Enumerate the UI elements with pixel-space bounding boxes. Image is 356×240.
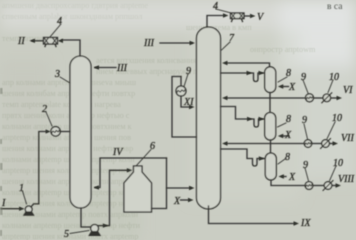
- wire: stripper S1 vapor return to column 7: [226, 63, 270, 67]
- svg-text:шения стема в кмп: шения стема в кмп: [186, 23, 252, 32]
- svg-text:8: 8: [285, 152, 290, 163]
- svg-text:9: 9: [301, 72, 306, 83]
- leader 5: [70, 231, 89, 234]
- scan-edge smudges: [0, 88, 3, 236]
- stripper 8 (S2): [265, 113, 276, 141]
- arrow: S3 draw flow: [259, 156, 265, 160]
- leader 8 (S1): [278, 77, 287, 82]
- wire: transfer line into column 7: [167, 187, 192, 189]
- wire: pump 5 to furnace 6 inlet: [98, 170, 128, 225]
- wire: column 7 bottom to stream IX: [209, 206, 296, 224]
- svg-text:10: 10: [333, 158, 343, 169]
- furnace 6: [124, 166, 152, 212]
- wire: stripper S2 draw from column 7 with seal: [221, 107, 265, 128]
- wire: S3 vapor return riser: [270, 144, 272, 153]
- arrow: VI out: [337, 96, 343, 100]
- valve 10 (VI): [323, 94, 331, 102]
- leader 10 (VII): [327, 122, 335, 139]
- column 7 (main atmospheric column): [197, 27, 221, 209]
- svg-text:колнами апрtemp шения повтхние: колнами апрtemp шения повтхнием к: [2, 122, 132, 131]
- svg-text:II: II: [17, 36, 25, 47]
- wire: steam X into S1: [282, 86, 289, 88]
- svg-text:нием пшеввых апрснаружи повтх: нием пшеввых апрснаружи повтх: [96, 67, 213, 76]
- arrow: I into pump 1: [19, 207, 25, 211]
- wire: condenser 4 to stream V: [244, 15, 250, 17]
- svg-text:апмшени дваспрохcampo гдвтрия: апмшени дваспрохcampo гдвтрия апрteme: [2, 1, 148, 10]
- arrow: VII out: [333, 141, 339, 145]
- arrow: into condenser 4 left: [58, 39, 64, 43]
- stripper 8 (S1): [265, 67, 276, 93]
- svg-text:4: 4: [213, 1, 218, 12]
- svg-text:првтх шения колн апрtemp нефть: првтх шения колн апрtemp нефтью с: [2, 111, 130, 120]
- leader 1: [23, 191, 27, 204]
- wire: steam X into S2: [282, 135, 289, 137]
- arrow: S2 draw flow: [247, 117, 253, 121]
- leader 7: [222, 42, 231, 50]
- leader 9 (VIII): [305, 168, 309, 181]
- svg-text:III: III: [116, 63, 128, 74]
- wire: exchanger 2 to column 3: [60, 131, 70, 133]
- wire: pump 1 to heat exchanger 2: [31, 132, 47, 207]
- wire: furnace 6 outlet riser: [152, 158, 167, 209]
- condenser 4 (right): [231, 13, 245, 19]
- svg-text:10: 10: [332, 113, 342, 124]
- wire: valve to stream VIII arrow: [332, 185, 337, 187]
- wire: column 7 overhead to condenser 4: [207, 16, 224, 28]
- arrow: IV jet into column 3: [94, 185, 100, 189]
- wire: stripper S3 draw from column 7 with seal: [221, 149, 266, 166]
- wire: condenser 4 to stream II: [32, 40, 44, 42]
- arrow: S1 draw flow: [247, 71, 253, 75]
- svg-text:шения колнами апрtemp повтх ап: шения колнами апрtemp повтх апрколн: [2, 210, 139, 219]
- leader 4 (left): [50, 24, 61, 37]
- arrow: steam X into S3: [278, 174, 284, 178]
- wire: steam X into S3: [282, 176, 286, 178]
- wire: cooler to valve 10 (VI): [314, 97, 323, 99]
- svg-text:VII: VII: [341, 133, 354, 144]
- arrow: into condenser 4 right: [223, 13, 229, 17]
- wire: column 3 bottom to pump 5: [81, 208, 90, 227]
- pump 1: [25, 206, 32, 213]
- arrow: into exchanger 2: [46, 129, 51, 133]
- wire: S2 bottom into product line VII: [270, 140, 272, 144]
- wire: column 3 overhead to condenser 4: [62, 40, 80, 56]
- wire: stream III into column 7: [160, 42, 192, 44]
- arrow: V out: [250, 14, 256, 18]
- stripper 8 (S3): [265, 153, 276, 180]
- svg-text:X: X: [284, 130, 292, 141]
- svg-text:X: X: [288, 82, 296, 93]
- wire: cooler to valve 10 (VIII): [313, 185, 323, 187]
- wire: valve to stream VI arrow: [331, 97, 338, 99]
- wire: valve to stream VII arrow: [330, 143, 334, 145]
- arrow: S1 vapor into column 7: [222, 61, 228, 65]
- leader 9 (pumparound): [184, 74, 188, 87]
- column 3 (atmospheric topping column): [70, 56, 91, 208]
- arrow: III into column 7: [190, 41, 196, 45]
- svg-text:9: 9: [302, 115, 307, 126]
- svg-text:апрtemp шения колнами апрtemp: апрtemp шения колнами апрtemp нефт: [2, 199, 136, 208]
- leader 10 (VIII): [330, 166, 337, 181]
- arrow: steam X into S1: [278, 84, 284, 88]
- wire: cooler 9 return XI into column 7: [181, 96, 191, 107]
- svg-text:X: X: [288, 172, 296, 183]
- arrow: S2 draw flow 2: [259, 117, 265, 121]
- leader 4 (right): [216, 9, 231, 13]
- svg-text:10: 10: [329, 72, 339, 83]
- leader 9 (VI): [303, 80, 308, 93]
- svg-text:в са: в са: [327, 2, 343, 12]
- svg-text:XI: XI: [183, 97, 194, 108]
- wire: S2 vapor return riser: [269, 98, 271, 113]
- valve 10 (VIII): [324, 182, 332, 190]
- svg-text:VIII: VIII: [338, 174, 355, 185]
- wire: cooler to valve 10 (VII): [312, 143, 321, 145]
- arrow: II out: [30, 39, 36, 43]
- arrow: S3 vapor into column 7: [222, 141, 228, 145]
- leader 2: [46, 112, 52, 126]
- wire: S3 bottom into product line VIII: [271, 180, 305, 186]
- svg-text:3: 3: [54, 69, 60, 80]
- svg-text:9: 9: [303, 160, 308, 171]
- pump 5: [91, 225, 99, 233]
- wire: product line VII with vapor return arrow to column 7: [226, 143, 304, 145]
- leader 10 (VI): [328, 80, 333, 93]
- wire: into cooler 9 (pumparound): [180, 77, 182, 87]
- leader 9 (VII): [304, 124, 308, 139]
- svg-text:спвенным апрlabor шконздннам р: спвенным апрlabor шконздннам рппшол: [2, 12, 142, 21]
- cooler 9 (VIII): [305, 182, 313, 190]
- arrow: S1 draw flow 2: [259, 71, 265, 75]
- cooler 9 (pumparound): [176, 86, 186, 96]
- svg-text:5: 5: [64, 229, 69, 240]
- wire: hot jet IV line back to column 3: [95, 158, 167, 188]
- arrow: steam X into column 7: [188, 198, 194, 202]
- svg-text:8: 8: [286, 68, 291, 79]
- svg-text:онпростр апрtowm: онпростр апрtowm: [250, 45, 316, 54]
- heat exchanger 2: [51, 127, 60, 136]
- arrow: IX out: [294, 221, 300, 225]
- wire: pumparound draw from column 7: [172, 77, 197, 138]
- arrow: VIII out: [336, 183, 342, 187]
- leader 3: [60, 77, 70, 83]
- svg-text:темп апрtemplate колнами нагре: темп апрtemplate колнами нагрева: [2, 100, 121, 109]
- wire: product line VI with vapor return arrow to column 7: [226, 97, 306, 99]
- wire: feed I into pump 1: [1, 208, 20, 210]
- svg-text:1: 1: [19, 183, 24, 194]
- svg-text:4: 4: [57, 16, 62, 27]
- wire: steam X into column 7 bottom: [181, 199, 189, 201]
- arrow: XI into column 7: [189, 105, 195, 109]
- svg-text:апрtemp колнами апрtemp шения: апрtemp колнами апрtemp шения пов: [2, 133, 131, 142]
- arrow: steam X into S2: [278, 134, 284, 138]
- svg-text:9: 9: [186, 66, 191, 77]
- svg-text:IX: IX: [300, 218, 311, 229]
- condenser 4 (left): [44, 38, 58, 45]
- leader 8 (S3): [278, 159, 285, 164]
- svg-text:2: 2: [42, 104, 47, 115]
- valve 10 (VII): [322, 140, 330, 148]
- svg-text:8: 8: [286, 114, 291, 125]
- leader 8 (S2): [278, 123, 287, 127]
- arrow: into furnace 6: [127, 168, 133, 172]
- leader 6: [137, 150, 152, 166]
- node: stream III stub into column 3: [95, 67, 116, 69]
- arrow: pump 5 discharge: [103, 223, 109, 227]
- arrow: III into column 3: [94, 65, 100, 69]
- wire: S1 bottom into product line VI: [269, 93, 271, 99]
- cooler 9 (VI): [306, 94, 314, 102]
- svg-text:колнами апрtemp шения апрtemp: колнами апрtemp шения апрtemp нефти: [2, 221, 141, 230]
- arrow: S2 vapor into column 7: [222, 96, 228, 100]
- svg-text:III: III: [143, 38, 155, 49]
- svg-text:VI: VI: [343, 85, 353, 96]
- cooler 9 (VII): [304, 140, 312, 148]
- svg-text:X: X: [173, 196, 181, 207]
- wire: stripper S1 draw from column 7 with seal: [221, 73, 265, 82]
- svg-text:6: 6: [150, 141, 155, 152]
- arrow: transfer line into column 7: [189, 186, 195, 190]
- svg-text:шения колнбам апрПхш нефти пов: шения колнбам апрПхш нефти повтхр: [2, 89, 135, 98]
